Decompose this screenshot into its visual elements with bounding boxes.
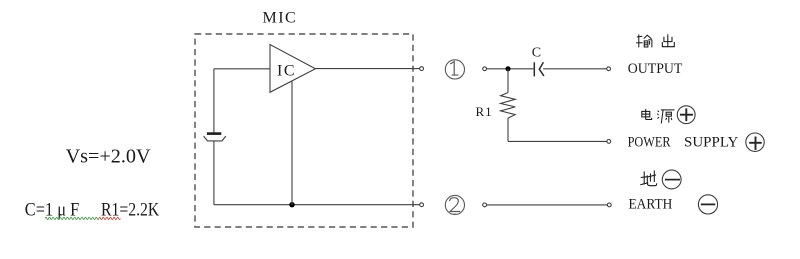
symbol minus circle (EARTH)	[698, 195, 717, 214]
node output terminal	[607, 67, 611, 71]
label yuan (Chinese: power char2)	[657, 110, 674, 124]
capacitor C	[534, 62, 544, 76]
junction node on ground rail	[289, 202, 294, 207]
node start of earth line	[483, 203, 487, 207]
wire power supply line	[508, 140, 607, 142]
svg-text:SUPPLY: SUPPLY	[684, 134, 739, 150]
symbol plus circle (POWER SUPPLY)	[746, 133, 764, 151]
node power supply terminal	[607, 140, 611, 144]
symbol plus circle (Chinese power)	[677, 106, 695, 124]
svg-text:EARTH: EARTH	[629, 197, 673, 213]
label dian (Chinese: power char1)	[642, 109, 652, 120]
wire output line right	[543, 68, 606, 70]
wire bottom ground rail	[214, 204, 420, 206]
wire junction to resistor	[507, 69, 509, 93]
op-amp U1 (IC)	[270, 45, 315, 93]
terminal label 2	[445, 195, 464, 214]
node earth terminal	[607, 203, 611, 207]
pin terminal output	[420, 67, 424, 71]
red squiggle underline	[99, 217, 121, 219]
electret capsule element	[204, 134, 226, 141]
wire capsule to ground rail	[213, 141, 215, 205]
svg-text:Vs=+2.0V: Vs=+2.0V	[66, 146, 152, 168]
wire earth line	[487, 204, 608, 206]
label chu (Chinese: output char2)	[662, 34, 674, 46]
wire resistor down	[507, 118, 509, 141]
symbol minus circle (Chinese earth)	[662, 170, 681, 189]
wire amp output	[315, 68, 419, 70]
svg-text:R1: R1	[476, 104, 493, 119]
terminal label 1	[445, 60, 464, 79]
wire amp to ground rail	[291, 81, 293, 205]
junction node A	[506, 66, 511, 71]
label shu (Chinese: output char1)	[636, 34, 652, 47]
svg-text:IC: IC	[277, 63, 296, 80]
wire input to amp	[214, 68, 270, 70]
svg-text:MIC: MIC	[263, 10, 298, 27]
svg-text:POWER: POWER	[628, 134, 671, 150]
svg-text:C: C	[532, 45, 541, 60]
svg-text:OUTPUT: OUTPUT	[628, 61, 683, 77]
green squiggle underline	[45, 217, 99, 219]
label di (Chinese: earth)	[640, 170, 656, 185]
MIC module dashed box	[195, 34, 413, 227]
resistor R1	[501, 93, 516, 119]
wire output line left	[487, 68, 534, 70]
pin terminal ground	[420, 203, 424, 207]
node start of output line	[483, 67, 487, 71]
wire down to capsule	[213, 69, 215, 133]
